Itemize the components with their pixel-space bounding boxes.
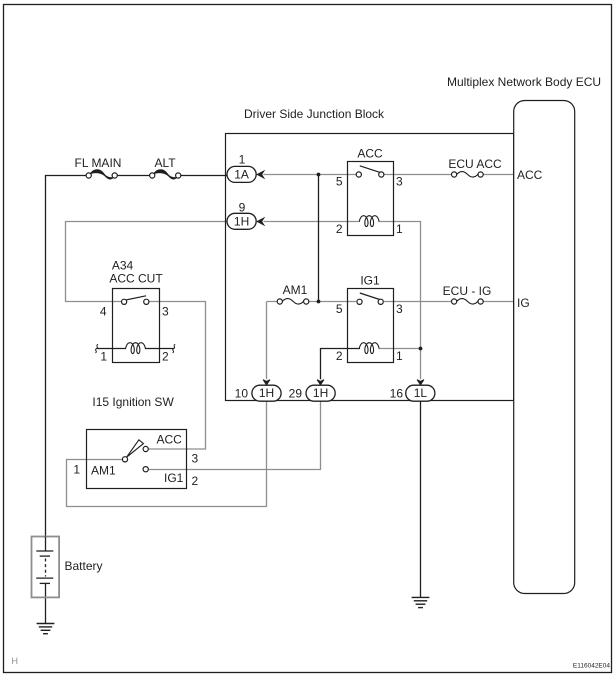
relay ACC box xyxy=(348,162,394,236)
wire break on A34 pin 2 xyxy=(173,344,176,353)
fusible link ALT xyxy=(150,156,181,182)
svg-text:5: 5 xyxy=(336,302,343,316)
relay IG1 box xyxy=(348,289,394,363)
svg-text:AM1: AM1 xyxy=(283,283,308,297)
ignition switch ACC contact xyxy=(143,446,148,451)
svg-text:1H: 1H xyxy=(313,386,328,400)
svg-text:1A: 1A xyxy=(234,167,249,181)
wire IG1 relay coil pin 2 to 1H pin29 arrow xyxy=(321,349,361,380)
relay A34 coil xyxy=(126,343,146,354)
connector 1H pin 9 xyxy=(227,200,264,229)
ignition switch I15 box xyxy=(87,430,187,489)
ground below battery xyxy=(37,624,55,634)
wire 1H pin10 to ignition switch AM1 terminal xyxy=(67,401,267,507)
svg-text:1: 1 xyxy=(396,222,403,236)
svg-text:ACC CUT: ACC CUT xyxy=(109,271,163,285)
battery plates xyxy=(36,537,53,584)
battery box xyxy=(32,537,60,598)
svg-text:1: 1 xyxy=(239,152,246,166)
fuse ECU ACC xyxy=(448,157,502,180)
wire 1H pin9 to A34 pin 4 xyxy=(66,222,228,302)
svg-text:ACC: ACC xyxy=(157,433,183,447)
wire AM1 fuse down to 1H pin10 arrow xyxy=(266,302,268,380)
wire IG1 relay coil pin 1 to node xyxy=(379,348,421,350)
wire ignition switch ACC terminal to A34 pin 3 xyxy=(148,302,205,450)
wire 1H pin29 to ignition switch IG1 terminal xyxy=(148,401,320,470)
wire break on A34 pin 1 xyxy=(95,344,98,353)
wire link node to node on x319 xyxy=(318,175,320,302)
wire battery negative to ground xyxy=(45,583,47,623)
relay IG1 coil xyxy=(359,343,379,354)
svg-text:3: 3 xyxy=(192,452,199,466)
svg-text:IG1: IG1 xyxy=(164,471,184,485)
svg-text:ALT: ALT xyxy=(154,156,176,170)
svg-text:5: 5 xyxy=(336,175,343,189)
svg-text:1: 1 xyxy=(73,463,80,477)
ignition switch lever xyxy=(127,440,144,457)
connector 1L pin 16 xyxy=(390,380,435,402)
svg-text:I15 Ignition SW: I15 Ignition SW xyxy=(92,395,174,409)
svg-text:10: 10 xyxy=(235,386,249,400)
svg-text:2: 2 xyxy=(336,349,343,363)
svg-text:2: 2 xyxy=(192,474,199,488)
relay A34 box xyxy=(113,289,160,363)
Driver Side Junction Block box xyxy=(226,134,514,401)
svg-text:3: 3 xyxy=(396,302,403,316)
svg-text:29: 29 xyxy=(289,386,303,400)
wire A34 coil pin 1 stub xyxy=(97,348,126,350)
svg-text:3: 3 xyxy=(396,175,403,189)
svg-text:2: 2 xyxy=(336,222,343,236)
svg-text:1: 1 xyxy=(100,350,107,364)
svg-text:2: 2 xyxy=(162,350,169,364)
svg-text:16: 16 xyxy=(390,386,404,400)
wire A34 coil pin 2 stub xyxy=(145,348,174,350)
relay IG1 switch xyxy=(360,293,381,300)
svg-text:1: 1 xyxy=(396,349,403,363)
svg-text:ACC: ACC xyxy=(517,168,543,182)
wire node down to 1L arrow xyxy=(420,349,422,380)
svg-text:3: 3 xyxy=(162,304,169,318)
relay ACC switch xyxy=(360,166,381,173)
node junction at 1A feed and link xyxy=(317,173,321,177)
svg-text:1H: 1H xyxy=(234,214,249,228)
connector 1H pin 29 xyxy=(289,380,336,402)
svg-text:AM1: AM1 xyxy=(91,464,116,478)
svg-text:IG: IG xyxy=(517,296,530,310)
ground below 1L xyxy=(412,597,430,607)
wire IG1 relay pin 3 to ECU-IG fuse to ECU IG terminal xyxy=(384,301,514,303)
wire ACC relay pin 3 to ECU ACC fuse to ECU ACC terminal xyxy=(384,174,514,176)
svg-text:IG1: IG1 xyxy=(360,274,380,288)
svg-text:Multiplex Network Body ECU: Multiplex Network Body ECU xyxy=(447,75,601,89)
wire battery feed through FL MAIN and ALT to 1A xyxy=(46,176,228,537)
wire 1H pin9 arrow to ACC relay coil pin 2 xyxy=(264,221,361,223)
connector 1H pin 10 xyxy=(235,380,281,402)
svg-text:Driver Side Junction Block: Driver Side Junction Block xyxy=(244,107,385,121)
node junction at AM1 row and link xyxy=(317,300,321,304)
wire ACC relay coil pin 1 down to node xyxy=(379,222,421,349)
ignition switch IG1 contact xyxy=(143,467,148,472)
svg-text:FL MAIN: FL MAIN xyxy=(75,156,122,170)
relay A34 switch xyxy=(126,296,146,300)
wire 1A arrow to ACC relay pin 5 xyxy=(264,174,357,176)
wire 1L to ground xyxy=(420,401,422,598)
svg-text:ACC: ACC xyxy=(357,147,383,161)
ignition switch AM1 contact xyxy=(122,457,127,462)
svg-text:ECU ACC: ECU ACC xyxy=(448,157,502,171)
fuse ECU - IG xyxy=(443,284,492,307)
fuse AM1 xyxy=(277,283,309,307)
node junction at relay coil pin1 net xyxy=(419,347,423,351)
svg-text:1L: 1L xyxy=(414,386,428,400)
connector 1A pin 1 xyxy=(227,152,264,182)
wire AM1 fuse row to IG1 relay pin 5 xyxy=(267,301,357,303)
Multiplex Network Body ECU box xyxy=(514,101,575,594)
svg-text:E116042E04: E116042E04 xyxy=(573,663,610,670)
svg-text:ECU - IG: ECU - IG xyxy=(443,284,492,298)
svg-text:4: 4 xyxy=(100,304,107,318)
svg-text:1H: 1H xyxy=(259,386,274,400)
relay ACC coil xyxy=(359,216,379,227)
svg-text:9: 9 xyxy=(239,200,246,214)
fusible link FL MAIN xyxy=(75,156,122,182)
svg-text:Battery: Battery xyxy=(65,559,103,573)
svg-text:H: H xyxy=(12,656,19,666)
